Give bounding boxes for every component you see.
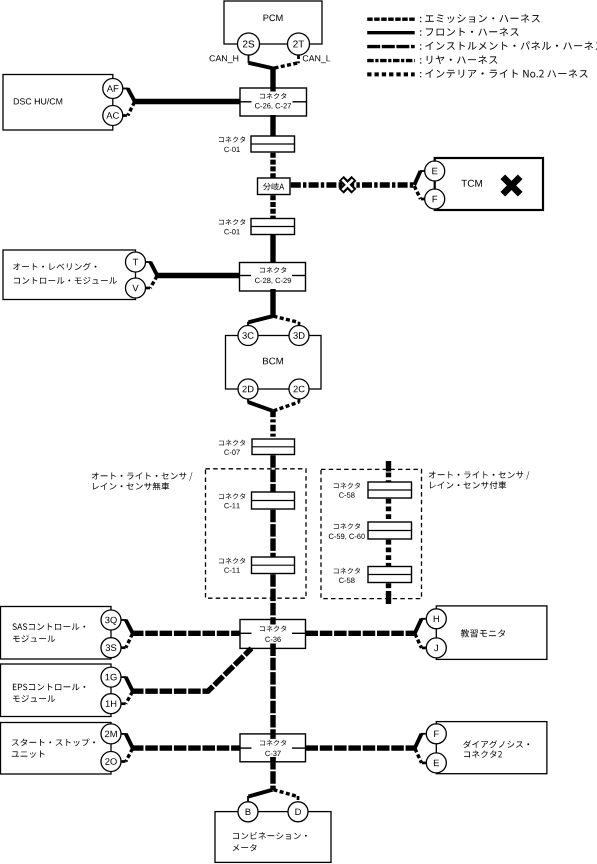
dashed enclosure: with auto light / rain sensor — [321, 469, 422, 598]
wire: emission harness C-01 to branch A — [270, 153, 275, 178]
wire stub into C-36 bottom — [270, 644, 275, 649]
TCM box — [435, 158, 543, 210]
terminal 1G — [101, 667, 121, 687]
wire: rear harness BCM junction to connector C-07 — [270, 411, 275, 440]
wire stub into C-37 bottom — [270, 757, 275, 762]
wire stub into C-37 top — [270, 734, 275, 739]
terminal E (TCM) — [425, 161, 445, 181]
terminal E (diagnosis) — [426, 753, 446, 773]
wire: BCM 3D elbow (dashed) — [274, 316, 299, 322]
wire: interior light No.2 harness stub above C-58 — [386, 461, 391, 472]
wire: V elbow (dashed) — [146, 287, 151, 290]
wire: DSC AF elbow (solid) — [123, 88, 129, 90]
wire: front harness C-26/C-27 to connector C-01 (upper) — [270, 115, 275, 136]
legend sample: rear harness — [367, 59, 415, 62]
combination meter box — [215, 812, 331, 863]
label connector C-58 (lower) — [334, 568, 360, 574]
terminal D — [288, 802, 308, 822]
terminal 2M — [101, 724, 121, 744]
wire: front harness C-01 to connector C-28/C-29 — [270, 235, 275, 268]
connector C-58 (lower) box — [368, 567, 412, 583]
label connector C-58 (upper) — [334, 483, 360, 489]
abandoned-circuit X mark on wire (white X, black outline) — [341, 178, 354, 191]
wire: interior light harness C-58 to C-59/C-60 — [386, 499, 391, 522]
terminal 2T — [288, 33, 310, 55]
wire: PCM 2T CAN_L elbow (dashed) — [297, 55, 300, 63]
wire: front harness DSC to connector C-26/C-27 — [133, 99, 241, 104]
connector C-58 (upper) box — [368, 482, 412, 498]
wire: front harness PCM junction into C-26/C-27 — [270, 66, 275, 91]
wire: start stop 2O elbow (dashed) — [122, 760, 127, 763]
terminal 3Q — [101, 610, 121, 630]
label CAN_L — [303, 55, 331, 63]
terminal F (TCM) — [425, 189, 445, 209]
wire: instrument panel harness C-07 to C-11 (upper) — [270, 455, 275, 492]
wire: instrument panel harness start stop unit to C-37 — [131, 745, 241, 750]
label connector C-01 (lower) — [219, 219, 245, 225]
legend sample: interior light No.2 harness — [367, 72, 415, 76]
wire: PCM 2S CAN_H elbow (solid) — [248, 55, 250, 63]
wire: start stop 2M elbow (solid) — [122, 733, 127, 735]
terminal 2C — [289, 379, 309, 399]
wire: diagnosis E elbow (dashed) — [421, 762, 426, 765]
wire: EPS 1G elbow (solid) — [122, 676, 127, 678]
dashed enclosure: without auto light / rain sensor — [206, 469, 307, 598]
wire: instrument panel harness C-36 to C-37 — [270, 644, 275, 739]
SAS control module box — [1, 607, 112, 660]
wire: instrument panel harness EPS to connector C-36 (diagonal) — [131, 648, 252, 691]
wire: instrument panel harness C-37 to diagnosis connector 2 — [306, 745, 417, 750]
wire: meter B elbow (solid) — [249, 790, 273, 797]
terminal 2D — [238, 379, 258, 399]
terminal 2S — [238, 33, 260, 55]
wire: TCM E elbow (solid) — [420, 170, 425, 172]
wire: instrument panel harness C-11 to connector C-36 — [270, 574, 275, 624]
connector C-36 box — [240, 620, 306, 649]
legend label: インストルメント・パネル・ハーネス — [420, 41, 597, 50]
wire: interior light harness C-59/C-60 to C-58 — [386, 540, 391, 567]
connector C-59, C-60 box — [368, 522, 412, 539]
BCM box — [226, 336, 322, 390]
start stop unit box — [1, 723, 112, 775]
training monitor box — [436, 606, 547, 660]
label connector C-11 (lower) — [219, 558, 245, 564]
label: auto light sensor / rain sensor none — [92, 472, 193, 480]
connector C-11 (upper) box — [252, 492, 295, 509]
wire: T elbow (solid) — [146, 261, 151, 263]
legend sample: emission harness — [367, 18, 415, 21]
auto leveling control module box — [3, 250, 136, 300]
terminal 3C — [238, 326, 258, 346]
connector C-11 (lower) box — [252, 557, 295, 574]
wire: instrument panel harness C-37 to combination meter junction — [270, 757, 275, 790]
terminal AC — [103, 106, 123, 126]
wire: DSC AC elbow (dashed) — [123, 114, 129, 117]
junction box 分岐A (branch A) — [258, 178, 291, 195]
connector C-26, C-27 box — [240, 88, 307, 116]
connector C-37 box — [240, 734, 306, 762]
wire: BCM 3C elbow (solid) — [249, 316, 273, 322]
wire: instrument panel harness C-36 to training monitor — [306, 631, 417, 636]
legend label: エミッション・ハーネス — [420, 14, 540, 23]
wire: meter D elbow (dashed) — [274, 790, 298, 797]
legend label: リヤ・ハーネス — [420, 55, 497, 64]
wire: BCM 2C elbow (dashed) — [298, 400, 301, 403]
wire stub into C-36 top — [270, 620, 275, 625]
label connector C-59, C-60 — [334, 523, 360, 529]
PCM box — [224, 1, 322, 44]
wire: rear harness branch A to TCM — [291, 182, 415, 187]
wire: SAS 3Q elbow (solid) — [122, 619, 127, 621]
connector C-01 (upper) box — [251, 136, 295, 152]
connector C-07 box — [252, 439, 295, 455]
terminal AF — [103, 79, 123, 99]
label CAN_H — [210, 55, 239, 63]
wire: front harness C-28/C-29 to BCM junction — [270, 289, 275, 318]
wire: TCM F elbow (dashed) — [420, 198, 425, 201]
terminal 1H — [101, 694, 121, 714]
wire: front harness auto leveling module to C-28/C-29 — [155, 273, 241, 278]
terminal T — [126, 252, 146, 272]
terminal V — [126, 278, 146, 298]
wire: SAS 3S elbow (dashed) — [122, 646, 127, 649]
legend sample: instrument panel harness — [367, 45, 415, 48]
wire: monitor J elbow (dashed) — [421, 647, 426, 650]
DSC HU/CM box — [3, 75, 113, 131]
wire: monitor H elbow (solid) — [421, 618, 426, 620]
wire: EPS 1H elbow (dashed) — [122, 702, 127, 705]
label connector C-11 (upper) — [219, 493, 245, 499]
terminal H — [426, 609, 446, 629]
label connector C-07 — [219, 440, 245, 446]
terminal B — [238, 802, 258, 822]
terminal F (diagnosis) — [426, 724, 446, 744]
terminal 3D — [289, 326, 309, 346]
terminal J — [426, 638, 446, 658]
terminal 3S — [101, 638, 121, 658]
label: auto light sensor / rain sensor equipped — [429, 471, 530, 479]
wire: instrument panel harness C-11 to C-11 — [270, 510, 275, 557]
legend label: インテリア・ライト No.2 ハーネス — [420, 69, 588, 78]
legend sample: front harness — [367, 31, 415, 34]
wire: diagnosis F elbow (solid) — [421, 733, 426, 735]
terminal 2O — [101, 752, 121, 772]
wire: interior light No.2 harness stub below C-58 — [386, 583, 391, 595]
TCM deleted X mark — [503, 177, 520, 194]
connector C-01 (lower) box — [251, 219, 295, 235]
label connector C-01 (upper) — [219, 136, 245, 142]
diagnosis connector 2 box — [436, 722, 547, 774]
wire: instrument panel harness SAS to connector C-36 — [131, 631, 241, 636]
connector C-28, C-29 box — [240, 263, 306, 292]
legend label: フロント・ハーネス — [420, 28, 519, 37]
wire: BCM 2D elbow (solid) — [247, 400, 249, 403]
wire: emission harness branch A to connector C-01 (lower) — [270, 195, 275, 218]
EPS control module box — [1, 664, 112, 717]
